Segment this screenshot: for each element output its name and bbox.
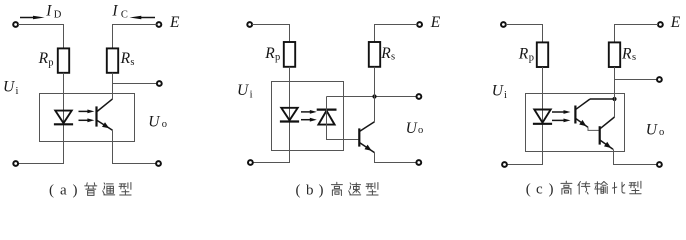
input terminal + (b) <box>247 22 252 27</box>
junction dot (b) <box>372 94 376 98</box>
label IC (a) <box>111 2 128 20</box>
svg-text:p: p <box>529 53 534 64</box>
svg-text:p: p <box>275 52 280 63</box>
svg-text:i: i <box>250 90 253 101</box>
photodiode D2 (b) <box>317 110 337 125</box>
label Ui (b) <box>237 82 253 101</box>
resistor Rp (a) <box>58 48 69 72</box>
wire Rs to collector (a) <box>112 73 114 99</box>
label Uo (c) <box>646 122 664 139</box>
junction dot (c) <box>612 97 616 101</box>
svg-text:s: s <box>632 52 636 63</box>
svg-text:): ) <box>319 183 324 199</box>
wire collector to node (b) <box>374 97 376 122</box>
svg-text:o: o <box>418 125 423 136</box>
svg-text:U: U <box>237 82 250 99</box>
wire emitter to bottom (a) <box>113 130 157 163</box>
wire top-left (a) <box>18 25 64 49</box>
wire Q1 emitter to Q2 base (c) <box>588 127 599 130</box>
output terminal - (c) <box>657 162 662 167</box>
light arrows (a) <box>79 110 95 123</box>
wire node to Q2 collector (c) <box>614 99 616 117</box>
svg-text:U: U <box>646 122 659 139</box>
label Uo (a) <box>148 114 167 131</box>
output terminal + (b) <box>417 94 422 99</box>
wire output tap (a) <box>113 83 158 85</box>
svg-text:I: I <box>111 2 118 19</box>
label Ui (c) <box>492 82 507 101</box>
svg-text:): ) <box>73 183 78 199</box>
resistor Rs (b) <box>369 42 380 67</box>
svg-text:i: i <box>504 90 507 101</box>
label Rp (b) <box>264 45 280 63</box>
output terminal + (a) <box>157 81 162 86</box>
current arrow IC (a) <box>130 16 156 19</box>
LED D1 (a) <box>54 111 73 125</box>
wire photodiode cathode to node (b) <box>327 97 359 140</box>
input terminal - (a) <box>13 161 18 166</box>
resistor Rp (c) <box>537 42 548 67</box>
svg-text:E: E <box>169 14 180 31</box>
supply terminal E (c) <box>658 22 663 27</box>
caption (b) <box>296 182 379 198</box>
phototransistor Q1 (a) <box>97 99 113 130</box>
svg-text:U: U <box>492 82 505 99</box>
wire Rp to LED (b) <box>253 67 290 163</box>
optocoupler box (c) <box>526 94 625 152</box>
wire E to Rs (c) <box>615 25 659 43</box>
svg-text:o: o <box>659 127 664 138</box>
svg-text:I: I <box>45 2 52 19</box>
svg-text:D: D <box>54 10 62 21</box>
LED D1 (c) <box>533 110 552 124</box>
label Rp (a) <box>38 50 54 68</box>
wire top-left (b) <box>252 25 289 43</box>
resistor Rs (a) <box>107 48 118 72</box>
wire Rp to LED (c) <box>507 67 543 165</box>
output terminal + (c) <box>657 77 662 82</box>
label Uo (b) <box>406 120 424 137</box>
svg-text:R: R <box>518 45 529 62</box>
wire output line (b) <box>327 96 417 98</box>
svg-text:p: p <box>48 57 53 68</box>
svg-text:U: U <box>148 114 161 131</box>
svg-text:(: ( <box>49 183 54 199</box>
svg-text:R: R <box>264 45 275 62</box>
svg-text:E: E <box>670 14 681 31</box>
wire top-left (c) <box>506 25 543 43</box>
transistor Q1 (b) <box>359 122 374 153</box>
svg-text:): ) <box>549 181 554 197</box>
svg-text:i: i <box>16 86 19 97</box>
supply terminal E (b) <box>417 22 422 27</box>
wire emitter to bottom (b) <box>375 153 417 163</box>
current arrow ID (a) <box>20 16 45 19</box>
input terminal - (c) <box>502 162 507 167</box>
wire Rp to LED (a) <box>18 73 63 164</box>
label Ui (a) <box>3 78 19 97</box>
wire E to Rs (a) <box>113 25 157 49</box>
resistor Rs (c) <box>609 42 620 67</box>
svg-text:R: R <box>621 45 632 62</box>
label Rs (c) <box>621 45 636 63</box>
wire Rs to node (b) <box>374 67 376 97</box>
svg-text:U: U <box>406 120 419 137</box>
svg-text:a: a <box>60 183 67 199</box>
svg-text:(: ( <box>296 183 301 199</box>
transistor Q2 (c) <box>600 117 615 149</box>
LED D1 (b) <box>280 108 299 122</box>
label ID (a) <box>45 2 62 20</box>
optocoupler box (b) <box>272 82 344 151</box>
wire Q1 collector to node (c) <box>590 98 613 100</box>
label Rs (b) <box>380 45 395 63</box>
svg-text:C: C <box>121 10 128 21</box>
resistor Rp (b) <box>284 42 295 67</box>
svg-text:R: R <box>380 45 391 62</box>
wire output tap (c) <box>615 79 658 81</box>
output terminal - (b) <box>416 160 421 165</box>
svg-text:s: s <box>391 51 395 62</box>
caption (c) <box>526 181 641 197</box>
optocoupler box (a) <box>40 94 135 142</box>
svg-text:U: U <box>3 78 16 95</box>
svg-text:R: R <box>38 50 49 67</box>
svg-text:(: ( <box>526 181 531 197</box>
svg-text:s: s <box>130 57 134 68</box>
input terminal + (c) <box>501 22 506 27</box>
light arrows (b) <box>301 110 317 122</box>
input terminal + (a) <box>13 22 18 27</box>
caption (a) <box>49 183 131 199</box>
label Rs (a) <box>120 50 135 68</box>
svg-text:R: R <box>120 50 131 67</box>
svg-text:o: o <box>162 119 167 130</box>
wire Q2 emitter to bottom (c) <box>614 149 658 164</box>
svg-text:E: E <box>430 14 441 31</box>
transistor Q1 (c) <box>575 99 590 127</box>
light arrows (c) <box>552 110 571 122</box>
svg-text:b: b <box>306 183 314 199</box>
svg-text:c: c <box>536 181 543 197</box>
wire E to Rs (b) <box>375 25 418 43</box>
label Rp (c) <box>518 45 534 63</box>
output terminal - (a) <box>156 161 161 166</box>
supply terminal E (a) <box>157 22 162 27</box>
wire Rs to node (c) <box>614 67 616 99</box>
input terminal - (b) <box>248 160 253 165</box>
